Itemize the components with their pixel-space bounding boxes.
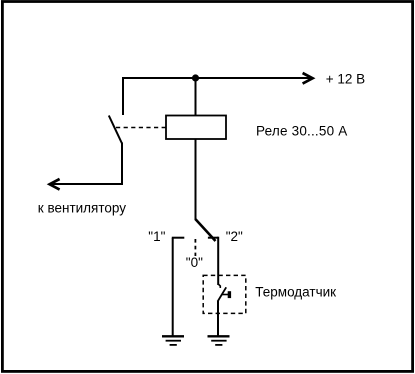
thermal actuator element: [228, 291, 231, 298]
wire: sensor to ground: [217, 301, 219, 336]
arrow to +12V: [303, 73, 313, 84]
wire: junction to relay coil top: [195, 78, 197, 116]
svg-text:"2": "2": [226, 229, 243, 244]
ground left: [162, 336, 184, 345]
svg-text:+ 12 В: + 12 В: [326, 72, 365, 87]
ground right: [208, 336, 230, 345]
dashed pos 0 mark: [194, 239, 196, 256]
wire: below relay contact: [52, 143, 122, 185]
wire: left branch down from +12V: [122, 77, 124, 115]
thermal switch fixed contact hook: [218, 284, 220, 288]
wire: relay coil bottom to selector pole: [195, 139, 197, 220]
contact 2 terminal: [208, 237, 218, 239]
selector switch blade (in position 2): [195, 219, 215, 241]
svg-text:Реле 30...50 А: Реле 30...50 А: [256, 124, 347, 139]
wire: top horizontal +12V feed: [123, 77, 310, 79]
svg-text:Термодатчик: Термодатчик: [255, 284, 336, 299]
wire: contact 2 down into sensor: [217, 237, 219, 285]
dashed mechanical link relay coil to contact: [116, 127, 166, 129]
node junction on +12V wire: [192, 74, 199, 81]
svg-text:к вентилятору: к вентилятору: [38, 200, 126, 215]
thermal actuator link: [222, 294, 228, 296]
relay contact blade (upper switch): [109, 116, 122, 144]
relay coil K1: [166, 116, 226, 140]
thermal switch blade: [218, 287, 227, 301]
contact 1 terminal: [172, 237, 185, 239]
svg-text:"0": "0": [186, 255, 203, 270]
svg-text:"1": "1": [148, 229, 165, 244]
wire: contact 1 down to ground: [172, 238, 174, 336]
dashed enclosure thermo sensor: [203, 275, 246, 313]
arrow to fan: [50, 179, 60, 190]
